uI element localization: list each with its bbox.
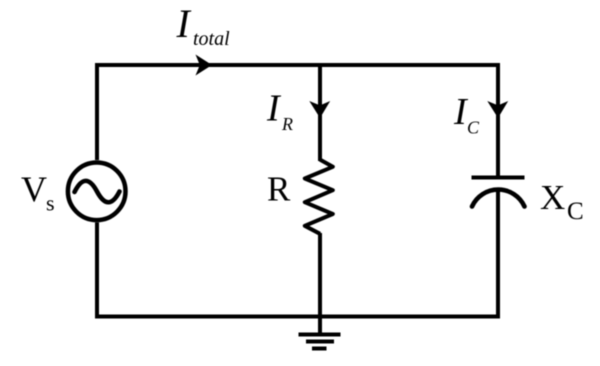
svg-text:R: R — [281, 114, 293, 134]
svg-text:I: I — [176, 1, 192, 46]
svg-text:V: V — [21, 169, 47, 209]
svg-text:total: total — [193, 28, 230, 50]
svg-text:C: C — [467, 118, 480, 138]
svg-text:I: I — [266, 88, 282, 130]
svg-text:C: C — [567, 198, 584, 225]
svg-text:R: R — [267, 170, 291, 209]
svg-text:X: X — [540, 178, 565, 217]
svg-text:s: s — [46, 191, 55, 216]
